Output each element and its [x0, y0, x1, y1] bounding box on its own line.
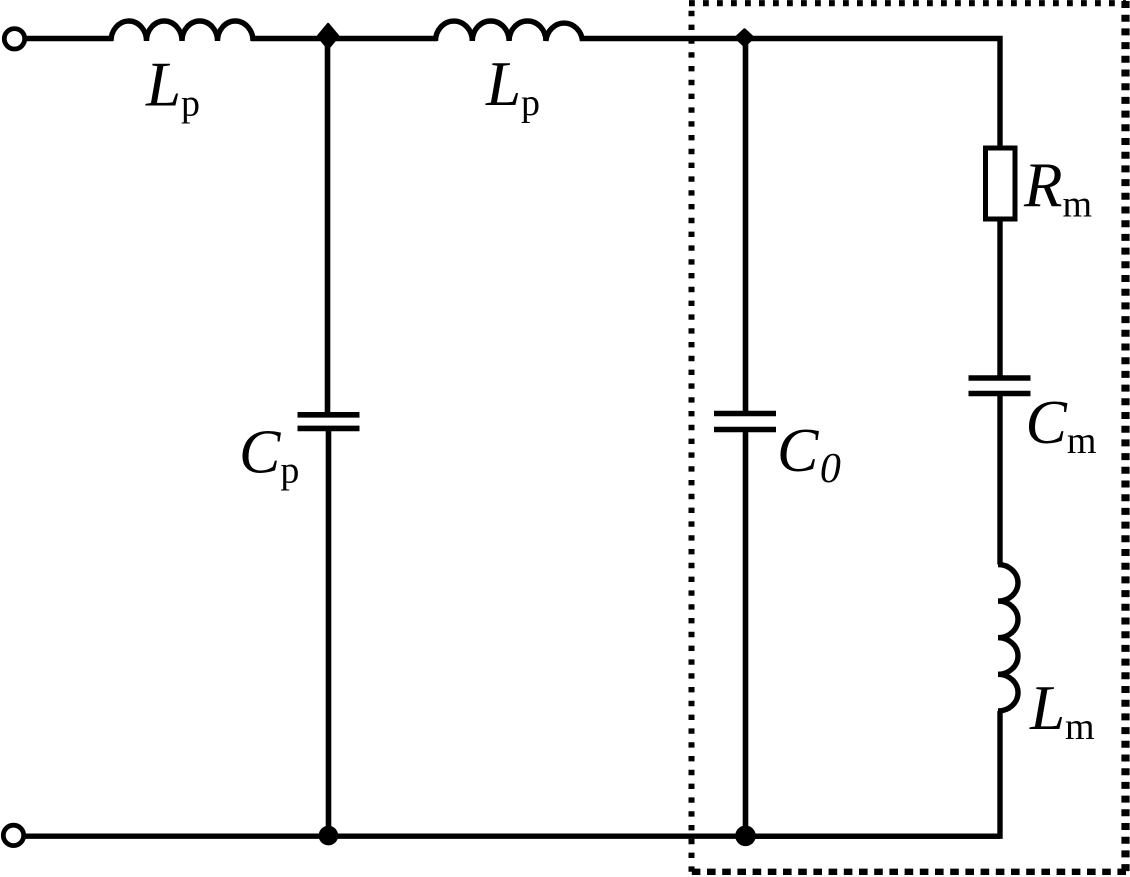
resistor Rm — [986, 148, 1016, 219]
inductor Lp1 — [111, 21, 253, 41]
wire: Cp branch upper — [325, 36, 331, 413]
wire: top terminal to Lp1 — [25, 36, 114, 41]
wire: Cm to Lm — [997, 395, 1002, 565]
terminal: input top — [4, 29, 24, 49]
wire: Cp branch lower — [326, 430, 332, 838]
capacitor Cp — [298, 415, 360, 429]
dashed box: motional-arm boundary — [689, 1, 1126, 872]
capacitor C0 — [714, 414, 776, 430]
capacitor Cm — [969, 378, 1031, 394]
node A junction dot — [318, 24, 338, 48]
wire: Lp2 through node B to right corner — [581, 36, 1003, 41]
wire: Lm down and corner to node D — [745, 711, 1000, 836]
wire: Lp1 to node A — [251, 36, 437, 41]
wire: bottom rail — [24, 834, 1001, 839]
wire: C0 branch upper — [743, 36, 749, 412]
node D junction dot — [735, 826, 756, 847]
inductor Lm — [998, 565, 1018, 712]
wire: C0 branch lower — [743, 431, 749, 838]
node B junction dot — [736, 30, 753, 46]
inductor Lp2 — [436, 21, 583, 41]
node C junction dot — [319, 826, 339, 846]
terminal: input bottom — [3, 825, 23, 845]
wire: right branch top, corner into Rm — [997, 36, 1002, 148]
wire: Rm to Cm — [997, 219, 1002, 377]
